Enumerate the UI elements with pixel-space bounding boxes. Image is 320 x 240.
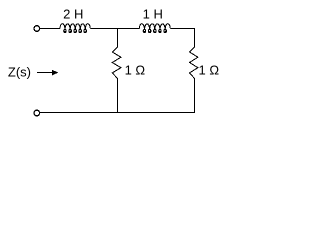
svg-text:2 H: 2 H — [63, 7, 83, 22]
svg-text:Z(s): Z(s) — [8, 65, 31, 80]
svg-text:1 Ω: 1 Ω — [199, 63, 220, 78]
svg-text:1 H: 1 H — [143, 7, 163, 22]
svg-text:1 Ω: 1 Ω — [125, 63, 146, 78]
